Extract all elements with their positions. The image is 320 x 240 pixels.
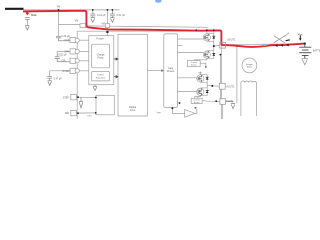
pin STEP (71, 94, 77, 99)
node C2 top junction (112, 9, 114, 11)
svg-text:VCP: VCP (64, 39, 69, 42)
pin AOUT2 (219, 83, 225, 89)
ground PGND (231, 104, 235, 109)
wire AOUT2 internal (207, 85, 220, 88)
node DIR pin junction (77, 112, 79, 114)
wire DVDD cap feed (50, 71, 70, 77)
wire PGND pin bottom (222, 104, 224, 119)
motor winding A (241, 81, 257, 116)
pin VM 1 (80, 24, 86, 28)
pin DIR (71, 110, 77, 115)
transistor Q4 (197, 88, 209, 96)
wire gate driver to Q4 gate (178, 91, 197, 93)
block Gate Drivers (164, 34, 178, 108)
marker blue blob top (155, 0, 162, 3)
svg-text:AOUT1: AOUT1 (227, 38, 236, 41)
wire gate driver lower stub (178, 102, 181, 104)
wire VM input rail (24, 9, 120, 11)
svg-text:DVDD: DVDD (63, 70, 70, 73)
comparator U2 (185, 110, 195, 118)
wire Q1 drain to VM rail (207, 30, 214, 34)
node sense bus top junction (220, 54, 222, 56)
wire CPH flying cap (57, 52, 70, 57)
ground C2 (110, 18, 114, 23)
svg-text:Core: Core (130, 109, 136, 112)
svg-text:CPL: CPL (61, 60, 66, 63)
svg-text:0.01 µF: 0.01 µF (117, 14, 126, 17)
wire CPH pin to power block (79, 51, 89, 53)
block logic B (96, 95, 114, 115)
ground C1 (91, 18, 95, 23)
node AOUT1 midpoint junction (213, 45, 215, 47)
node VM pin2 junction (107, 9, 109, 11)
node CPH circle (75, 49, 79, 53)
wire Q2 source to current sense (194, 58, 207, 60)
wire comparator output (195, 109, 197, 113)
wire VM pin2 vertical (106, 10, 108, 36)
wire AOUT1 internal (214, 44, 220, 47)
wire STEP to logic (76, 96, 96, 98)
wire comparator input from gate driver (172, 107, 184, 113)
switch disconnect X (274, 33, 289, 43)
capacitor C1 0.01uF (90, 10, 95, 18)
wire gate driver stub (178, 45, 183, 47)
node battery positive junction (304, 43, 306, 45)
svg-text:AOUT2: AOUT2 (226, 86, 235, 89)
wire VM branch down to VCP cap (58, 10, 60, 36)
svg-text:0.47 µF: 0.47 µF (54, 77, 63, 80)
svg-text:VM: VM (75, 20, 79, 23)
wire supply input (bold) (5, 8, 24, 10)
capacitor C_VCP 0.22uF (56, 36, 70, 41)
transistor Q1 (203, 34, 215, 42)
ground C_DVDD (48, 81, 52, 86)
block Charge Pump (92, 44, 110, 68)
node gate driver stub junction (179, 102, 181, 104)
wire DIR to logic (76, 112, 95, 114)
svg-text:Regulator: Regulator (96, 76, 106, 79)
pin CPL (70, 58, 76, 63)
pin VM 2 (106, 24, 110, 28)
wire sense bus vertical (219, 54, 221, 98)
wire gate driver to Q1 gate (178, 38, 204, 40)
current arrow 2 on red path (281, 44, 284, 47)
wire comparator output arrow (195, 107, 198, 109)
motor circle (242, 58, 257, 73)
node VM rail junction (195, 29, 197, 31)
pin CPH (70, 49, 76, 54)
ground battery (302, 59, 308, 65)
battery B1 (299, 44, 311, 59)
node Q1 drain rail junction (206, 29, 208, 31)
svg-text:Stepper: Stepper (246, 63, 253, 66)
capacitor C_fly 0.022uF (55, 57, 70, 62)
svg-text:0.22 µF: 0.22 µF (62, 35, 71, 38)
current arrow 3 on red path (286, 44, 289, 47)
label VBAT arrow (299, 36, 302, 41)
switch lever tick (286, 39, 290, 42)
node VM-bulkcap junction (58, 9, 60, 11)
svg-text:DVDD: DVDD (97, 75, 104, 77)
svg-text:VM: VM (198, 72, 201, 74)
wire half-bridge1 midpoint (213, 41, 215, 51)
svg-text:DIR: DIR (65, 112, 69, 115)
svg-text:CPH: CPH (64, 51, 69, 54)
pin PGND (220, 99, 226, 105)
svg-text:Pump: Pump (97, 56, 104, 59)
wire DVDD reg to digital core arrow (114, 76, 118, 78)
svg-text:VM: VM (101, 23, 105, 26)
svg-text:OSC: OSC (87, 116, 92, 118)
capacitor C2 0.01uF (110, 10, 115, 18)
wire DVDD pin to power block (79, 70, 89, 72)
ground bulk (25, 25, 29, 29)
wire digital core to gate drivers arrow (147, 70, 163, 72)
wire Q3 drain VM stub (199, 72, 201, 75)
node gate driver bottom junction (171, 107, 173, 109)
svg-text:VM: VM (57, 5, 61, 8)
svg-text:Drivers: Drivers (167, 70, 175, 73)
svg-text:Power: Power (97, 36, 104, 40)
node logicB STEP entry (95, 97, 97, 99)
svg-text:BATTERY: BATTERY (313, 49, 320, 52)
node C1 top junction (92, 9, 94, 11)
svg-text:Bulk: Bulk (31, 13, 37, 17)
block Power (89, 36, 114, 85)
capacitor C_bulk (25, 17, 30, 25)
wire AOUT1 to motor (236, 45, 238, 104)
pin VCP (70, 37, 76, 42)
svg-text:0.022 µF: 0.022 µF (58, 55, 68, 57)
wire AOUT1 to battery (226, 44, 305, 45)
wire CPL pin to power block (79, 60, 89, 62)
node VM pin2 to power dot (square) (106, 31, 108, 33)
wire current sense 1 output (200, 63, 206, 66)
node DVDD circle (75, 69, 79, 73)
transistor Q2 (203, 51, 215, 59)
node logicB DIR entry (95, 112, 97, 114)
pin DVDD (70, 68, 76, 73)
capacitor C_DVDD 0.47uF (47, 77, 52, 81)
svg-text:STEP: STEP (63, 96, 70, 99)
svg-text:Sense: Sense (194, 102, 199, 104)
wire charge pump to digital core arrow (114, 58, 118, 60)
node VCP circle (75, 38, 79, 42)
node CPL circle (75, 59, 79, 63)
wire VM pin1 feed (59, 23, 81, 25)
block DVDD Regulator (92, 72, 110, 81)
wire VM net interconnect (86, 26, 209, 27)
marker blue segment on wire (263, 44, 267, 46)
svg-text:Sense: Sense (191, 65, 198, 67)
wire Q4 source to current sense (195, 96, 201, 99)
transistor Q3 (197, 75, 209, 83)
wire half-bridge2 midpoint (206, 82, 208, 88)
wire PGND to ground (226, 101, 234, 103)
svg-text:Motor: Motor (247, 66, 252, 69)
ground power block (93, 85, 97, 91)
wire current sense 1 arrow down (205, 66, 207, 68)
block Digital Core (118, 34, 147, 116)
block Current Sense 2 (191, 98, 202, 103)
node STEP pin junction (77, 96, 79, 98)
IC U1 boundary (77, 31, 221, 119)
wire gate driver to Q2 gate (178, 52, 204, 54)
svg-text:0.01 µF: 0.01 µF (97, 14, 106, 17)
wire highlighted reverse-current path (red) (23, 11, 305, 47)
pin AOUT1 (220, 42, 226, 48)
ground STEP pulldown (79, 97, 83, 107)
node PGND wire junction (215, 100, 217, 102)
wire current sense 2 to PGND (202, 100, 220, 103)
node AOUT2 midpoint junction (211, 85, 213, 87)
wire VCP pin to power block (79, 39, 89, 41)
wire gate driver to Q3 gate (178, 77, 197, 79)
red arrow into bulk cap (26, 11, 30, 16)
svg-text:PGND: PGND (226, 100, 233, 103)
block Current Sense 1 (187, 61, 200, 67)
current arrow 1 on red path (275, 44, 278, 47)
node Q1 diode rail junction (213, 29, 215, 31)
